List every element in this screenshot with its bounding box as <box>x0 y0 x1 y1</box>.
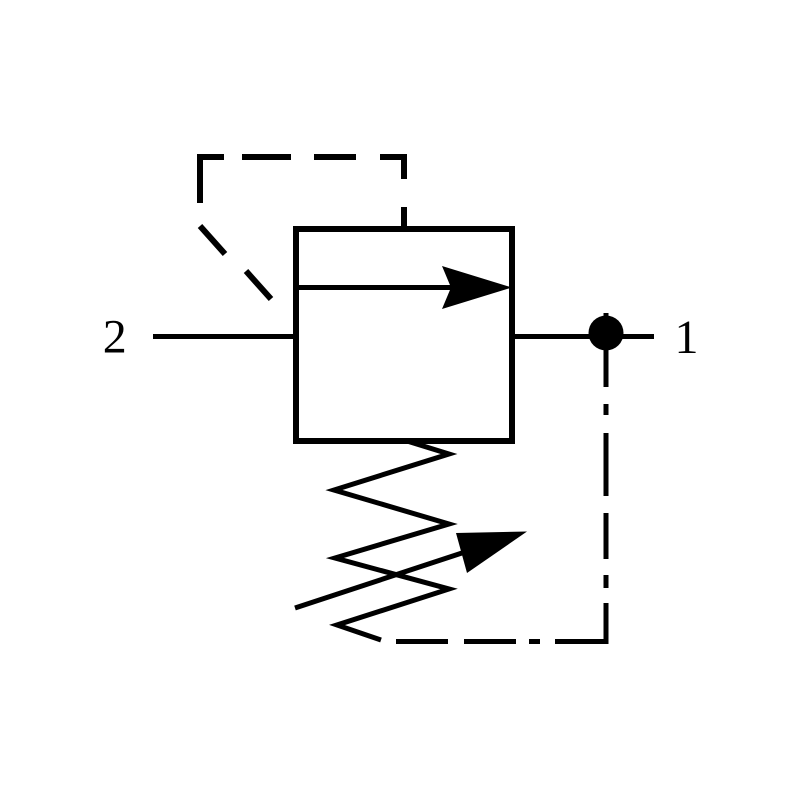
drain dash-dot corner <box>555 603 606 642</box>
port 2 line <box>153 334 296 339</box>
pilot dash top B <box>242 154 291 160</box>
pilot stub at box top <box>401 207 407 229</box>
port 1 line <box>512 334 654 339</box>
pilot dashed line corner left <box>200 157 224 203</box>
drain dash-dot horizontal: dash 4 <box>396 639 448 644</box>
drain dash-dot horizontal: dot 3 <box>529 639 540 644</box>
drain dash-dot horizontal: dash 3 <box>464 639 516 644</box>
drain dash-dot vertical: dot 2 <box>604 575 609 588</box>
adjustment arrowhead <box>456 532 527 574</box>
junction stub vertical <box>604 313 609 387</box>
adjustment arrow shaft <box>295 552 465 608</box>
pilot dash top A <box>314 154 356 160</box>
drain dash-dot vertical: dash 1 <box>604 433 609 496</box>
pilot diagonal dash 2 <box>246 271 271 299</box>
junction dot <box>589 316 624 351</box>
valve body box <box>296 229 512 441</box>
pilot dashed line corner right <box>380 157 404 179</box>
drain dash-dot vertical: dash 2 <box>604 513 609 559</box>
flow path arrow shaft <box>296 285 452 290</box>
spring zigzag <box>334 441 449 640</box>
svg-text:2: 2 <box>103 311 127 364</box>
pilot diagonal dash 1 <box>200 226 225 254</box>
flow path arrowhead <box>442 266 512 309</box>
drain dash-dot vertical: dot 1 <box>604 404 609 415</box>
svg-text:1: 1 <box>675 311 699 364</box>
